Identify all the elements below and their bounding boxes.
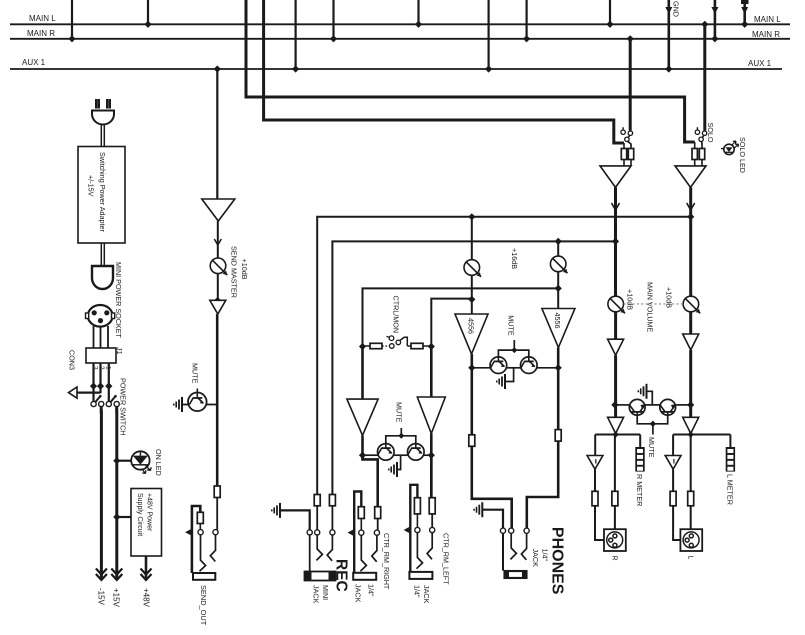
junction dot CTR/MON left node (359, 343, 366, 350)
jack REC ring contact (315, 530, 320, 535)
transistor Q4 (phones mute) (521, 357, 538, 374)
resistor rec right (329, 495, 335, 506)
bus MAIN L (10, 23, 790, 25)
jack PHONES sleeve contact (500, 528, 505, 533)
svg-text:R METER: R METER (635, 474, 644, 506)
junction dot CTR/MON right node (428, 343, 435, 350)
wire right to output node bar (690, 434, 692, 435)
svg-text:JACK: JACK (531, 549, 540, 568)
ground rec jack (279, 503, 281, 518)
jack CTR_RM_RIGHT ring contact (359, 530, 364, 535)
wire balanced inverter branch left (594, 435, 596, 456)
jack PHONES sleeve wire to body (502, 533, 504, 570)
transistor Q6 (out mute R) (676, 404, 691, 406)
jack CTR_RM_RIGHT frame arrow (348, 529, 355, 536)
CON3 pin dots (92, 310, 97, 315)
svg-text:PHONES: PHONES (549, 527, 566, 595)
op-amp solo sum right (675, 166, 706, 188)
resistor R xlr hot (L out) (688, 491, 694, 506)
op-amp monitor left (347, 399, 378, 435)
jack CTR_RM_LEFT frame arrow (404, 526, 411, 533)
arrow +48V (141, 569, 152, 575)
box switching power adapter (78, 147, 125, 244)
svg-text:MAIN L: MAIN L (29, 14, 56, 23)
wire to 48V supply box (117, 516, 131, 518)
potentiometer +16dB left (471, 217, 473, 260)
chassis arrow (power ground) (69, 387, 78, 398)
chevron arrow into send master pot (214, 239, 221, 245)
jack CTR_RM_RIGHT body (353, 573, 376, 580)
buffer triangle right out (683, 334, 699, 350)
jack PHONES tip lever (521, 533, 526, 560)
resistor ctr-rm-right ring (358, 507, 364, 519)
wire from top to MAIN R at x=526.6 (525, 0, 527, 39)
transistor Q2 (monitor mute) (408, 444, 425, 461)
svg-text:+15V: +15V (112, 588, 121, 608)
svg-text:+10dB: +10dB (240, 259, 249, 280)
jack CTR_RM_LEFT tip contact (430, 527, 435, 532)
jack CTR_RM_RIGHT tip lever (372, 535, 377, 562)
svg-text:ON LED: ON LED (154, 449, 163, 476)
wire monitor left to ctr-rm-right jack (363, 455, 378, 507)
jack CTR_RM_RIGHT ring lever (360, 535, 366, 571)
resistor phones left (469, 435, 475, 447)
inverter triangle right (-1) (665, 456, 681, 470)
wire to ON LED (117, 460, 132, 462)
wire from top to MAIN L at x=418.5 (417, 0, 419, 24)
svg-text:MUTE: MUTE (647, 437, 656, 458)
wire resistor to XLR R left pin (595, 506, 604, 540)
wire phones right to tip contact (527, 441, 558, 528)
phones mute control stem (513, 340, 515, 350)
wire from top to MAIN L with arrow at x=744.7 (743, 0, 746, 24)
power switch levers (95, 397, 100, 403)
AC plug P1 (96, 99, 110, 109)
junction dot left out mute (611, 401, 618, 408)
wire GND from top to AUX 1 with arrow (667, 0, 670, 69)
jack SEND_OUT tip lever (210, 535, 215, 562)
ground at aux mute (182, 404, 188, 406)
potentiometer MAIN VOLUME right (683, 296, 699, 312)
resistor R solo left b (628, 149, 633, 160)
wire MAIN L tap down to right solo switch (701, 21, 708, 28)
emitter tie bar and mute stem (637, 415, 668, 424)
wire MAIN R feed line y=241.4 (332, 241, 615, 494)
svg-text:REC: REC (333, 559, 350, 592)
wire between phones mute transistors + ground (507, 367, 521, 369)
wire right solo amp output down (689, 187, 692, 296)
switch SOLO right NC contact (695, 130, 699, 134)
wire between monitor mute transistors + ground (394, 454, 407, 456)
bus MAIN R (10, 38, 790, 40)
junction dot ON LED tap (113, 457, 120, 464)
box +48V power supply circuit (131, 489, 162, 557)
power switch pole contacts (91, 401, 96, 406)
resistor rec left (314, 495, 320, 506)
svg-text:1/4": 1/4" (413, 585, 422, 598)
wire 4556 right output down (557, 348, 560, 430)
wire direct branch to resistor (L out) (690, 435, 692, 492)
wire monitor amp right to mute (430, 434, 433, 498)
connector J1 box (86, 348, 116, 363)
connector CON3 socket face (88, 305, 113, 327)
buffer triangle left post-mute (608, 417, 624, 433)
wires resistors into right solo sum amp (694, 160, 696, 166)
wire left buffer to mute node (614, 355, 617, 417)
svg-text:MUTE: MUTE (191, 363, 200, 384)
wires J1 to junction row (92, 363, 94, 403)
ground phones jack (481, 502, 483, 517)
wire crossfeed A (ctr/mon left to right channel) (363, 288, 559, 346)
resistor ctr-rm-right tip (375, 507, 381, 519)
svg-text:4556: 4556 (467, 318, 476, 334)
resistor ctr-rm-left tip (429, 498, 435, 514)
jack CTR_RM_LEFT frame (410, 485, 417, 572)
svg-text:MUTE: MUTE (507, 315, 516, 336)
wire buffer to mute node (216, 314, 219, 486)
jack REC tip lever (327, 535, 332, 561)
svg-text:MINI: MINI (321, 585, 330, 600)
switch SOLO left NC contact (621, 130, 625, 134)
switch CTRL/MON lever (396, 340, 401, 345)
svg-text:JACK: JACK (354, 584, 363, 603)
wire phones left to ring contact (472, 446, 512, 528)
wire from top to MAIN R at x=333.5 (332, 0, 334, 39)
wire from top to AUX 1 at x=295.6 (295, 0, 297, 69)
wire from top to MAIN L at x=148 (147, 0, 149, 24)
jack CTR_RM_LEFT body (409, 572, 432, 579)
wire from top to MAIN R at x=72 (71, 0, 73, 39)
switch SOLO left pole to resistor (628, 141, 632, 148)
jack SEND_OUT ring contact (198, 530, 203, 535)
resistor R xlr L cold (L out) (670, 491, 676, 506)
svg-text:1/4": 1/4" (541, 549, 550, 562)
connector XLR R (604, 529, 626, 551)
svg-text:GND: GND (672, 1, 681, 17)
wire power cord lower (twin lead) (100, 243, 102, 266)
svg-text:MINI POWER SOCKET: MINI POWER SOCKET (114, 262, 123, 338)
svg-text:-15V: -15V (97, 588, 106, 606)
wire left to output node bar (615, 434, 617, 435)
wire send amp to pot (217, 221, 219, 258)
junction dots power wires (90, 383, 97, 390)
wire monitor mute control stem (400, 428, 402, 436)
svg-text:+48V Power: +48V Power (146, 493, 153, 532)
switch SOLO right throw contact (702, 131, 706, 135)
svg-text:+48V: +48V (142, 588, 151, 608)
svg-text:+10dB: +10dB (626, 289, 635, 310)
svg-text:L: L (687, 556, 694, 560)
off-page connector square at top of x=744.7 (741, 0, 749, 4)
arrow -15V (96, 569, 107, 575)
wire direct branch to resistor (R out) (614, 435, 616, 492)
wire AUX1 down to send amp (216, 69, 218, 199)
potentiometer +16dB right (557, 241, 559, 256)
wire pot to buffer triangle (217, 274, 219, 301)
potentiometer SEND MASTER (210, 258, 226, 274)
jack SEND_OUT ring lever (200, 535, 206, 572)
wire left solo amp output down (614, 187, 617, 296)
wires phones mute to channel lines (472, 367, 491, 369)
wire rec right to contact (331, 506, 333, 530)
wire monitor amp left to mute (361, 436, 364, 460)
jack PHONES tip contact (524, 528, 529, 533)
resistor ctr/mon left (363, 345, 371, 347)
transistor Q7 aux mute (207, 404, 218, 406)
switch CTRL/MON contacts (390, 344, 395, 349)
wire resistor to ring contact (199, 524, 201, 530)
potentiometer MAIN VOLUME left (608, 296, 624, 312)
jack PHONES ring lever (510, 533, 516, 559)
resistor R solo left a (621, 149, 626, 160)
wire chassis arrow to middle pin (77, 392, 101, 394)
svg-text:R: R (611, 556, 618, 561)
svg-text:SOLO LED: SOLO LED (738, 137, 747, 173)
svg-text:JACK: JACK (422, 585, 431, 604)
op-amp monitor right (417, 397, 445, 434)
mini power plug barrel (92, 266, 113, 289)
jack REC mini body (305, 572, 336, 581)
jack CTR_RM_LEFT ring contact (415, 527, 420, 532)
wire left pot to 4556 input node (471, 275, 473, 314)
switch SOLO right pole and lever (699, 137, 703, 141)
jack SEND_OUT body (193, 573, 215, 580)
jack PHONES body (504, 571, 527, 579)
junction dot AUX1 send tap (214, 65, 221, 72)
buffer triangle left out (608, 339, 624, 355)
wire left pot to buffer (614, 312, 617, 339)
svg-text:SEND_OUT: SEND_OUT (199, 585, 208, 626)
arrow +15V (111, 569, 122, 575)
resistor R xlr hot (R out) (612, 491, 618, 506)
wire right pot to 4556 input node (557, 272, 559, 309)
wires CON3 to J1 (93, 326, 95, 348)
buffer triangle right post-mute (683, 417, 699, 433)
wire +15V rail (115, 407, 118, 581)
wire right buffer to mute node (689, 350, 692, 417)
resistor R_sendjack (197, 512, 203, 523)
switch SOLO left throw contact (628, 131, 632, 135)
wire +48V rail (145, 556, 148, 580)
resistor R_send (214, 486, 220, 498)
svg-text:MAIN R: MAIN R (752, 30, 780, 39)
bus AUX 1 (10, 68, 782, 70)
resistor R xlr L cold (592, 491, 598, 506)
jack REC ring lever (316, 535, 322, 560)
svg-text:MAIN VOLUME: MAIN VOLUME (646, 282, 655, 333)
phones mute base tie bar (498, 350, 528, 357)
resistor phones right (555, 430, 561, 442)
svg-text:Switching Power Adapter: Switching Power Adapter (98, 152, 107, 233)
op-amp 4556 left (455, 314, 488, 354)
svg-text:4556: 4556 (553, 313, 562, 329)
wire rec sleeve to body (309, 535, 311, 572)
switch SOLO right pole to resistor (701, 141, 703, 148)
wire ctr/mon right node down to monitor amp (430, 347, 433, 398)
ctr/mon dashed link (382, 345, 389, 347)
transistor Q5 (out mute L) (616, 404, 630, 406)
jack SEND_OUT frame (192, 506, 200, 573)
wire monitor right to ctr-rm-left jack (430, 455, 433, 498)
junction dot 48V supply tap (113, 513, 120, 520)
wire 4556 left output to phones/mute node (470, 354, 473, 435)
inverter triangle left (-1) (587, 456, 603, 470)
wire crossfeed B (ctr/mon right to left channel) (431, 299, 472, 347)
meter R METER bar (635, 447, 644, 472)
svg-text:1/4": 1/4" (367, 584, 376, 597)
svg-text:CTR_RM_RIGHT: CTR_RM_RIGHT (382, 533, 391, 590)
svg-text:CTR_RM_LEFT: CTR_RM_LEFT (442, 533, 451, 585)
jack SEND_OUT tip contact (213, 530, 218, 535)
wire power cord upper (twin lead) (100, 125, 102, 147)
wire ctr/mon left node down to monitor amp (361, 347, 364, 400)
svg-text:MAIN L: MAIN L (754, 15, 781, 24)
meter L METER bar (726, 447, 735, 472)
wire from top to MAIN R with arrow at x=714.9 (714, 0, 717, 39)
op-amp solo sum left (600, 166, 631, 188)
jack CTR_RM_LEFT tip lever (427, 533, 432, 560)
svg-text:AUX 1: AUX 1 (22, 58, 46, 67)
wire rec left to contact (316, 506, 318, 530)
svg-text:+16dB: +16dB (510, 248, 519, 269)
wire from top to AUX 1 at x=488.6 (488, 0, 490, 69)
svg-text:POWER SWITCH: POWER SWITCH (119, 378, 128, 436)
svg-text:+/-15V: +/-15V (87, 175, 96, 197)
jack CTR_RM_RIGHT frame (354, 492, 361, 573)
resistor R solo right b (699, 149, 704, 160)
svg-text:SEND MASTER: SEND MASTER (230, 246, 239, 298)
switch SOLO left pole and lever (625, 137, 629, 141)
jack SEND_OUT frame arrow (185, 529, 192, 536)
wire from top bend to left solo switch resistor (264, 0, 624, 143)
svg-text:+10dB: +10dB (665, 287, 674, 308)
ON LED (131, 451, 149, 469)
svg-text:MAIN R: MAIN R (27, 29, 55, 38)
monitor mute base tie bar (386, 436, 416, 443)
wire resistor to XLR L left pin (673, 506, 680, 540)
svg-text:MUTE: MUTE (395, 402, 404, 423)
wire between out-mute transistors (645, 404, 660, 406)
wire resistor into XLR L (690, 506, 692, 529)
jack CTR_RM_LEFT ring lever (417, 533, 423, 569)
chevron arrow on left output (612, 203, 620, 210)
svg-text:CON3: CON3 (68, 350, 77, 370)
svg-text:Supply Circuit: Supply Circuit (136, 493, 143, 536)
wire balanced inverter branch right (672, 435, 674, 456)
jack CTR_RM_RIGHT tip contact (374, 530, 379, 535)
wire L meter branch (729, 435, 731, 448)
jack REC tip contact (330, 530, 335, 535)
svg-text:J1: J1 (115, 347, 124, 355)
transistor Q1 (monitor mute) (378, 444, 395, 461)
wire R meter branch (639, 435, 641, 448)
jack PHONES ring contact (509, 528, 514, 533)
wire inverter to resistor left (594, 469, 596, 491)
LED SOLO (724, 144, 734, 154)
jack REC sleeve contact (307, 530, 312, 535)
resistor ctr-rm-left ring (414, 498, 420, 514)
resistor ctr/mon right (411, 343, 423, 348)
ground at out-mute pair (647, 391, 653, 405)
svg-text:L METER: L METER (726, 474, 735, 505)
transistor Q3 (phones mute) (490, 357, 507, 374)
wire resistor into XLR R (614, 506, 616, 529)
wire MAIN R tap down to left solo switch (627, 35, 634, 42)
op-amp send buffer U2 (202, 199, 235, 221)
wire right pot to buffer (689, 312, 692, 334)
junction dot right out mute (687, 401, 694, 408)
connector XLR L (680, 529, 702, 551)
gang dotted line between main volume pots (624, 303, 683, 305)
output node bar left (595, 434, 640, 436)
wires resistors into left solo sum amp (623, 160, 625, 166)
chevron arrow on right output (687, 203, 695, 210)
svg-text:AUX 1: AUX 1 (748, 59, 772, 68)
svg-text:JACK: JACK (312, 585, 321, 604)
svg-text:CTRL/MON: CTRL/MON (392, 296, 401, 334)
wire MAIN L feed line y=216.8 to rec and +16dB taps (317, 217, 691, 495)
buffer triangle with input dot (214, 297, 221, 304)
wire resistor to send jack tip (216, 498, 218, 530)
wire from top to MAIN L at x=610 (609, 0, 611, 24)
wire -15V rail (100, 407, 103, 581)
wire inverter to resistor right (672, 469, 674, 491)
resistor R solo right a (692, 149, 697, 160)
op-amp 4556 right (542, 309, 575, 348)
wire from top bend to right solo switch resistor (246, 0, 695, 142)
output node bar right (673, 434, 730, 436)
